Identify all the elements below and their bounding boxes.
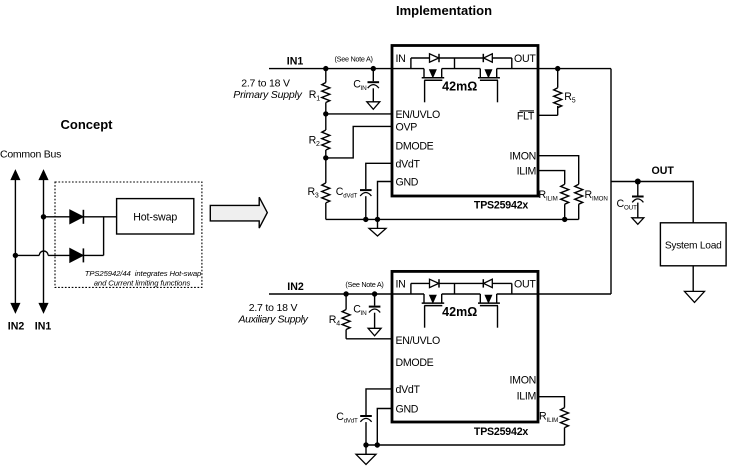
value 42 mOhm <box>442 79 477 93</box>
transistor QA <box>422 294 445 328</box>
svg-text:dVdT: dVdT <box>396 384 421 396</box>
label Primary Supply <box>233 89 302 101</box>
ground rail (primary) <box>326 218 579 220</box>
bus IN1 vertical line with arrows <box>39 170 48 312</box>
transistor QB <box>478 69 500 103</box>
resistor R5 <box>554 69 562 116</box>
pin EN/UVLO (U1) <box>396 109 440 121</box>
svg-text:2.7 to 18 V: 2.7 to 18 V <box>249 302 298 314</box>
svg-text:dVdT: dVdT <box>344 419 358 425</box>
dashed concept box <box>55 182 202 287</box>
junction GND lead (auxiliary) <box>375 442 380 447</box>
svg-text:Hot-swap: Hot-swap <box>133 212 177 224</box>
wire OUT vertical rail <box>610 69 612 294</box>
svg-text:1: 1 <box>316 95 320 102</box>
junction COUT top <box>635 179 641 185</box>
IC U1 TPS25942x box <box>392 46 538 197</box>
ground under CIN (primary) <box>367 102 380 110</box>
resistor R2 <box>322 114 330 158</box>
label OUT <box>652 165 675 177</box>
pin IMON (U2) <box>510 375 536 387</box>
resistor R4 <box>342 294 350 339</box>
wire GND (auxiliary) <box>377 409 392 446</box>
label Auxiliary Supply <box>237 314 308 326</box>
svg-text:DMODE: DMODE <box>396 357 434 369</box>
label RILIM (auxiliary) <box>539 410 558 424</box>
svg-text:(See Note A): (See Note A) <box>345 280 383 289</box>
wire IMON to RIMON <box>538 156 579 185</box>
resistor R1 <box>322 69 330 114</box>
diode D1 <box>70 210 84 224</box>
junction CdVdT bottom (auxiliary) <box>363 442 368 447</box>
svg-text:Primary Supply: Primary Supply <box>233 89 302 101</box>
svg-text:EN/UVLO: EN/UVLO <box>396 109 440 121</box>
resistor RILIM (primary) <box>561 184 569 219</box>
label RILIM (primary) <box>539 189 558 203</box>
pin DMODE (U1) <box>396 141 434 153</box>
junction R1 top <box>323 66 328 71</box>
svg-text:GND: GND <box>396 404 419 416</box>
label IN2 <box>8 321 25 333</box>
junction R5 top <box>555 66 560 71</box>
svg-text:dVdT: dVdT <box>396 158 421 170</box>
wire EN/UVLO (primary) <box>326 113 392 115</box>
wire OUT (U1) to rail <box>497 68 611 70</box>
capacitor COUT <box>632 182 644 218</box>
wire FLT to R5 <box>538 114 558 116</box>
svg-text:4: 4 <box>336 320 340 327</box>
svg-text:2.7 to 18 V: 2.7 to 18 V <box>241 78 290 90</box>
svg-text:ILIM: ILIM <box>546 195 558 202</box>
svg-text:3: 3 <box>315 192 319 199</box>
ground under CIN (auxiliary) <box>368 328 381 336</box>
svg-text:DMODE: DMODE <box>396 141 434 153</box>
junction R4 top <box>343 291 348 296</box>
pin IN (U1) <box>396 53 406 65</box>
svg-text:42mΩ: 42mΩ <box>442 305 477 319</box>
junction RILIM bottom <box>562 217 567 222</box>
body diode DB <box>483 54 492 62</box>
ground rail (auxiliary) <box>366 444 565 446</box>
block arrow concept to implementation <box>210 197 267 228</box>
label See Note A (auxiliary) <box>345 280 383 289</box>
capacitor CdVdT (auxiliary) <box>360 416 372 445</box>
svg-text:TPS25942x: TPS25942x <box>474 426 528 438</box>
svg-text:IN1: IN1 <box>35 321 52 333</box>
label CdVdT (primary) <box>336 186 358 200</box>
svg-text:IN2: IN2 <box>287 281 304 293</box>
wire OVP <box>326 126 392 157</box>
title Concept <box>61 117 114 132</box>
svg-text:OUT: OUT <box>652 165 675 177</box>
junction CIN top <box>371 66 376 71</box>
label R2 <box>309 135 320 149</box>
svg-text:2: 2 <box>316 141 320 148</box>
wire dVdT (primary) <box>366 163 392 189</box>
resistor RILIM (auxiliary) <box>561 408 569 445</box>
label IN2 (auxiliary) <box>287 281 304 293</box>
svg-text:IMON: IMON <box>510 375 536 387</box>
svg-text:OUT: OUT <box>514 53 536 65</box>
capacitor CdVdT (primary) <box>360 190 372 219</box>
pin OVP (U1) <box>396 121 418 133</box>
svg-text:IMON: IMON <box>592 195 608 202</box>
wire GND (primary) <box>378 182 393 220</box>
wire D1 to Hot-swap <box>83 216 116 218</box>
wire internal channel segment <box>442 68 481 70</box>
svg-text:EN/UVLO: EN/UVLO <box>396 335 440 347</box>
svg-text:Auxiliary Supply: Auxiliary Supply <box>237 314 308 326</box>
svg-text:ILIM: ILIM <box>517 166 536 178</box>
pin ILIM (U2) <box>517 391 536 403</box>
junction R2/R3 OVP <box>323 155 328 160</box>
pin OUT (U2) <box>514 279 536 291</box>
ground under COUT <box>632 218 644 225</box>
svg-text:IN1: IN1 <box>287 56 304 68</box>
svg-text:TPS25942/44 integrates Hot-sw: TPS25942/44 integrates Hot-swap <box>85 269 202 278</box>
svg-text:and Current limiting functions: and Current limiting functions <box>94 278 191 287</box>
svg-text:Concept: Concept <box>61 117 114 132</box>
label TPS25942x (U2) <box>474 426 528 438</box>
label R5 <box>564 91 576 105</box>
pin FLT (U1) <box>517 110 535 122</box>
diode D2 <box>70 248 84 262</box>
transistor QA <box>422 69 445 103</box>
pin ILIM (U1) <box>517 166 536 178</box>
svg-text:IN: IN <box>360 310 367 317</box>
label CIN (auxiliary) <box>353 303 367 317</box>
svg-text:GND: GND <box>396 177 419 189</box>
label 2.7 to 18 V (auxiliary) <box>249 302 298 314</box>
pin OUT (U1) <box>514 53 536 65</box>
svg-text:IN: IN <box>396 53 406 65</box>
svg-text:FLT: FLT <box>517 110 535 122</box>
svg-text:IN: IN <box>360 85 367 92</box>
bus IN2 vertical line with arrows <box>11 170 20 312</box>
wire EN/UVLO (auxiliary) <box>346 338 392 340</box>
IC U2 TPS25942x box <box>392 271 538 422</box>
svg-text:42mΩ: 42mΩ <box>442 79 477 93</box>
svg-text:TPS25942x: TPS25942x <box>474 200 528 212</box>
label COUT <box>617 198 638 212</box>
wire IN1 to IC <box>269 68 424 70</box>
svg-text:ILIM: ILIM <box>547 417 559 424</box>
label R1 <box>309 89 320 103</box>
svg-text:IN2: IN2 <box>8 321 25 333</box>
svg-text:IMON: IMON <box>510 151 536 163</box>
wire OUT node <box>611 182 693 223</box>
svg-text:ILIM: ILIM <box>517 391 536 403</box>
svg-text:OUT: OUT <box>624 205 637 212</box>
svg-text:5: 5 <box>572 98 576 105</box>
label IN1 (primary) <box>287 56 304 68</box>
label CIN (primary) <box>353 78 367 92</box>
pin EN/UVLO (U2) <box>396 335 440 347</box>
concept note text <box>85 269 202 288</box>
body diode DA <box>430 279 440 287</box>
junction GND lead <box>375 217 380 222</box>
junction R1/R2 <box>323 111 328 116</box>
pin GND (U2) <box>396 404 419 416</box>
wire IN2 to IC <box>269 293 424 295</box>
title Implementation <box>396 3 492 18</box>
wire OUT (U2) to rail <box>497 293 611 295</box>
label See Note A (primary) <box>335 55 373 64</box>
svg-text:IN: IN <box>396 279 406 291</box>
resistor R3 <box>322 158 330 220</box>
capacitor CIN (primary) <box>368 69 380 102</box>
wire dVdT (auxiliary) <box>366 389 392 415</box>
ground symbol (auxiliary rail) <box>356 445 376 465</box>
label TPS25942x (U1) <box>474 200 528 212</box>
wire IN1 to diode D1 <box>44 216 70 218</box>
transistor QB <box>478 294 500 328</box>
svg-text:(See Note A): (See Note A) <box>335 55 373 64</box>
wire internal diode row <box>411 58 512 69</box>
wire IN2 to diode D2 with hop over IN1 <box>15 251 69 255</box>
pin dVdT (U1) <box>396 158 421 170</box>
svg-text:OVP: OVP <box>396 121 418 133</box>
svg-text:OUT: OUT <box>514 279 536 291</box>
node Common Bus label <box>0 149 61 161</box>
capacitor CIN (auxiliary) <box>369 294 381 328</box>
pin IMON (U1) <box>510 151 536 163</box>
wire D2 up to D1 output <box>83 217 103 256</box>
pin dVdT (U2) <box>396 384 421 396</box>
body diode DB <box>483 279 492 287</box>
svg-text:Implementation: Implementation <box>396 3 492 18</box>
pin DMODE (U2) <box>396 357 434 369</box>
label 2.7 to 18 V (primary) <box>241 78 290 90</box>
body diode DA <box>430 54 440 62</box>
label RIMON <box>585 189 608 203</box>
junction on IN1 bus <box>41 214 46 219</box>
resistor RIMON <box>575 184 583 219</box>
svg-text:Common Bus: Common Bus <box>0 149 61 161</box>
pin GND (U1) <box>396 177 419 189</box>
label IN1 <box>35 321 52 333</box>
wire internal diode row <box>411 283 512 294</box>
ground symbol (primary rail) <box>369 219 386 236</box>
Hot-swap block <box>117 199 194 234</box>
junction on IN2 bus <box>13 253 18 258</box>
label R3 <box>308 186 319 200</box>
label R4 <box>329 314 340 328</box>
junction CdVdT bottom <box>363 217 368 222</box>
junction CIN top (auxiliary) <box>372 291 377 296</box>
label CdVdT (auxiliary) <box>336 411 358 425</box>
ground under System Load <box>685 291 705 302</box>
wire System Load to ground <box>692 266 694 292</box>
wire internal channel segment <box>442 293 481 295</box>
wire ILIM to RILIM (auxiliary) <box>538 397 565 408</box>
svg-text:System Load: System Load <box>665 240 722 251</box>
pin IN (U2) <box>396 279 406 291</box>
System Load block <box>660 223 726 266</box>
svg-text:dVdT: dVdT <box>343 193 357 199</box>
wire ILIM to RILIM <box>538 171 565 185</box>
value 42 mOhm <box>442 305 477 319</box>
